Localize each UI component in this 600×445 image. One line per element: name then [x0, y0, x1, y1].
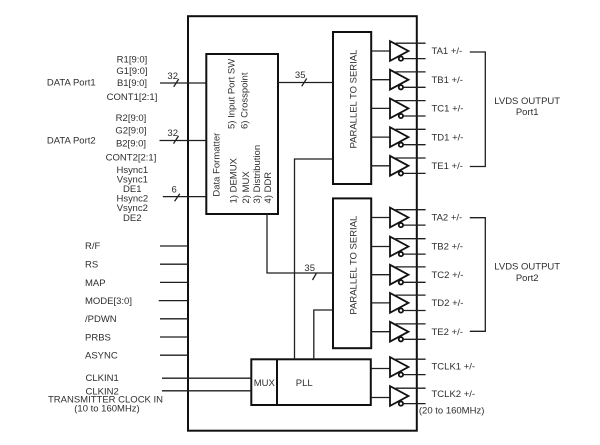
- wire PLL to P2S2 clock: [314, 310, 333, 359]
- wire bus 32 port1: [160, 82, 206, 84]
- wire to driver TCLK1: [371, 368, 390, 370]
- svg-text:LVDS OUTPUT: LVDS OUTPUT: [494, 262, 560, 273]
- LVDS driver TE2: [390, 322, 426, 342]
- svg-text:2) MUX: 2) MUX: [241, 171, 252, 204]
- svg-text:R2[9:0]: R2[9:0]: [116, 113, 147, 124]
- svg-text:6) Crosspoint: 6) Crosspoint: [239, 72, 250, 129]
- svg-text:1) DEMUX: 1) DEMUX: [228, 157, 239, 203]
- LVDS driver TB2: [390, 237, 426, 257]
- wire RS: [160, 263, 188, 265]
- svg-text:MUX: MUX: [254, 378, 276, 389]
- svg-text:6: 6: [172, 184, 177, 195]
- wire bus 32 port2: [160, 140, 207, 142]
- svg-text:32: 32: [167, 128, 178, 139]
- svg-text:G2[9:0]: G2[9:0]: [115, 125, 146, 136]
- svg-text:TC2 +/-: TC2 +/-: [432, 270, 464, 281]
- LVDS driver TB1: [390, 70, 426, 90]
- svg-text:TCLK2 +/-: TCLK2 +/-: [432, 389, 476, 400]
- LVDS driver TA2: [390, 208, 426, 228]
- svg-text:DE2: DE2: [123, 213, 141, 224]
- wire to driver TC1: [371, 107, 390, 109]
- svg-text:TD1 +/-: TD1 +/-: [432, 132, 464, 143]
- wire to driver TA2: [371, 217, 390, 219]
- wire to driver TE1: [371, 165, 390, 167]
- LVDS driver TCLK2: [390, 386, 426, 406]
- svg-text:LVDS OUTPUT: LVDS OUTPUT: [494, 96, 560, 107]
- LVDS driver TD1: [390, 127, 426, 147]
- svg-text:Data Formatter: Data Formatter: [211, 133, 222, 197]
- wire to driver TE2: [371, 331, 390, 333]
- svg-text:B1[9:0]: B1[9:0]: [117, 78, 147, 89]
- svg-text:32: 32: [167, 71, 178, 82]
- bus slash DF-P2S2: [313, 273, 317, 280]
- wire bus 35 DF to P2S1: [278, 82, 333, 84]
- svg-text:R1[9:0]: R1[9:0]: [117, 54, 148, 65]
- svg-text:3) Distribution: 3) Distribution: [252, 145, 263, 204]
- svg-text:PRBS: PRBS: [85, 332, 111, 343]
- wire /PDWN: [160, 318, 188, 320]
- svg-text:DATA Port2: DATA Port2: [47, 135, 96, 146]
- wire to driver TD2: [371, 302, 390, 304]
- svg-text:(20 to 160MHz): (20 to 160MHz): [419, 405, 484, 416]
- bus slash port2: [174, 136, 179, 144]
- wire bus 35 DF to P2S2: [267, 214, 333, 273]
- svg-text:35: 35: [295, 70, 306, 81]
- bus slash port1: [174, 79, 179, 87]
- wire to driver TB1: [371, 79, 390, 81]
- svg-text:PARALLEL TO SERIAL: PARALLEL TO SERIAL: [348, 50, 359, 149]
- svg-text:TE2 +/-: TE2 +/-: [432, 327, 463, 338]
- LVDS driver TA1: [390, 41, 426, 61]
- svg-text:/PDWN: /PDWN: [85, 314, 117, 325]
- LVDS driver TC1: [390, 99, 426, 119]
- svg-text:ASYNC: ASYNC: [85, 351, 118, 362]
- svg-text:DATA Port1: DATA Port1: [47, 77, 96, 88]
- wire MODE: [159, 300, 188, 302]
- LVDS driver TC2: [390, 265, 426, 285]
- wire R/F: [160, 245, 188, 247]
- bracket port1: [470, 52, 486, 167]
- svg-text:B2[9:0]: B2[9:0]: [116, 138, 146, 149]
- MUX/PLL divider: [276, 359, 278, 405]
- wire PRBS: [160, 336, 188, 338]
- wire CLKIN2: [162, 390, 251, 392]
- svg-text:CONT2[2:1]: CONT2[2:1]: [106, 152, 157, 163]
- svg-text:R/F: R/F: [85, 241, 101, 252]
- wire to driver TA1: [371, 50, 390, 52]
- bracket port2: [470, 218, 486, 332]
- svg-text:(10 to 160MHz): (10 to 160MHz): [74, 403, 139, 414]
- bus slash DF-P2S1: [302, 79, 307, 87]
- svg-text:G1[9:0]: G1[9:0]: [116, 66, 147, 77]
- wire bus 6 sync: [163, 196, 207, 198]
- LVDS driver TE1: [390, 156, 426, 176]
- svg-text:RS: RS: [85, 260, 98, 271]
- svg-text:5) Input Port SW: 5) Input Port SW: [226, 59, 237, 129]
- bus slash sync: [175, 194, 180, 202]
- svg-text:TC1 +/-: TC1 +/-: [432, 104, 464, 115]
- svg-text:PARALLEL TO SERIAL: PARALLEL TO SERIAL: [348, 216, 359, 315]
- svg-text:TB1 +/-: TB1 +/-: [432, 75, 463, 86]
- svg-text:TCLK1 +/-: TCLK1 +/-: [432, 362, 476, 373]
- wire CLKIN1: [162, 377, 251, 379]
- svg-text:PLL: PLL: [296, 378, 313, 389]
- wire PLL to P2S1 clock: [295, 159, 334, 359]
- svg-text:35: 35: [304, 263, 315, 274]
- parallel-to-serial box 1: [333, 32, 371, 184]
- svg-text:TB2 +/-: TB2 +/-: [432, 242, 463, 253]
- wire MAP: [160, 281, 188, 283]
- wire to driver TC2: [371, 274, 390, 276]
- outer chip box: [188, 16, 417, 431]
- wire to driver TCLK2: [371, 397, 390, 399]
- svg-text:Port2: Port2: [516, 273, 539, 284]
- svg-text:TA2 +/-: TA2 +/-: [432, 213, 463, 224]
- svg-text:MAP: MAP: [85, 278, 106, 289]
- svg-text:TE1 +/-: TE1 +/-: [432, 161, 463, 172]
- MUX-PLL box: [251, 359, 370, 405]
- LVDS driver TD2: [390, 293, 426, 313]
- svg-text:TD2 +/-: TD2 +/-: [432, 298, 464, 309]
- svg-text:CLKIN1: CLKIN1: [86, 373, 119, 384]
- wire ASYNC: [160, 354, 188, 356]
- LVDS driver TCLK1: [390, 357, 426, 377]
- Data Formatter box U1: [206, 54, 278, 214]
- svg-text:CONT1[2:1]: CONT1[2:1]: [107, 92, 158, 103]
- svg-text:MODE[3:0]: MODE[3:0]: [85, 296, 132, 307]
- svg-text:4) DDR: 4) DDR: [263, 172, 274, 204]
- wire to driver TB2: [371, 246, 390, 248]
- svg-text:TA1 +/-: TA1 +/-: [432, 46, 463, 57]
- wire to driver TD1: [371, 136, 390, 138]
- svg-text:Port1: Port1: [516, 107, 539, 118]
- parallel-to-serial box 2: [333, 198, 371, 348]
